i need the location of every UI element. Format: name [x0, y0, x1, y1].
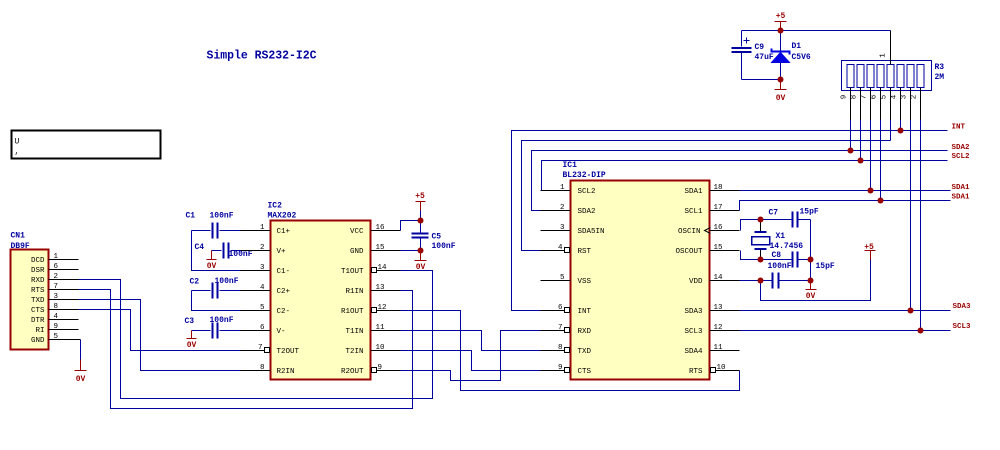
svg-text:5: 5 — [54, 333, 59, 341]
IC2 inverted-pin bubble pin14 T1OUT — [372, 268, 377, 273]
svg-text:1: 1 — [880, 53, 888, 58]
CN1 pin 3 stub — [49, 299, 79, 301]
svg-text:100nF: 100nF — [229, 250, 253, 259]
IC1 OSCIN clock chevron — [705, 228, 711, 234]
svg-text:0V: 0V — [76, 375, 86, 384]
svg-text:TXD: TXD — [578, 348, 592, 356]
svg-text:8: 8 — [260, 364, 265, 372]
wire C9/D1 bottom rail — [742, 79, 781, 81]
svg-text:INT: INT — [952, 124, 966, 132]
IC1 inverted-pin bubble pin7 RXD — [565, 328, 570, 333]
svg-text:0V: 0V — [776, 94, 786, 103]
svg-text:R3: R3 — [935, 63, 945, 72]
capacitor C7 15pF — [769, 208, 819, 228]
svg-text:47uF: 47uF — [755, 53, 774, 62]
node junction +5 / D1 top — [778, 28, 784, 34]
wire net SDA1 : IC1.18 to label — [740, 190, 951, 192]
svg-text:6: 6 — [54, 263, 59, 271]
node junction R3.6 / SDA1 line2 — [878, 198, 884, 204]
svg-text:3: 3 — [260, 264, 265, 272]
svg-text:0V: 0V — [416, 263, 426, 272]
wire CN1 GND down — [80, 340, 82, 360]
svg-text:BL232-DIP: BL232-DIP — [563, 171, 606, 180]
wire +5 rail to C9 and R3 pin1 — [742, 30, 891, 32]
svg-text:V+: V+ — [277, 248, 287, 256]
svg-text:1: 1 — [54, 253, 59, 261]
svg-text:R1IN: R1IN — [345, 288, 363, 296]
svg-text:10: 10 — [717, 364, 727, 372]
svg-text:4: 4 — [260, 284, 265, 292]
svg-text:18: 18 — [714, 184, 723, 192]
ground 0V at oscillator rail — [806, 281, 817, 302]
IC2 inverted-pin bubble pin9 R2OUT — [372, 368, 377, 373]
power +5 at IC2 — [415, 192, 425, 221]
node junction X1 top / OSCIN — [758, 217, 764, 223]
svg-text:,: , — [15, 148, 20, 157]
svg-text:5: 5 — [260, 304, 265, 312]
svg-text:C1+: C1+ — [277, 228, 291, 236]
svg-text:14: 14 — [378, 264, 388, 272]
svg-text:RXD: RXD — [578, 328, 592, 336]
CN1 pin 7 stub — [49, 289, 79, 291]
svg-text:5: 5 — [560, 274, 565, 282]
wire net T1IN : IC2.11 to IC1 TXD(8) — [401, 331, 541, 351]
wire net TXD : CN1.3 to IC2 R2IN(8) — [79, 300, 241, 371]
svg-text:C5V6: C5V6 — [792, 53, 811, 62]
svg-text:C4: C4 — [195, 243, 205, 252]
wire OSCOUT jog : IC1.15 down to crystal line — [741, 251, 792, 260]
node junction R3.4 / INT — [898, 128, 904, 134]
svg-text:MAX202: MAX202 — [268, 212, 297, 221]
svg-text:OSCOUT: OSCOUT — [675, 248, 703, 256]
node junction R3.3 / SDA3 — [908, 308, 914, 314]
power +5 at IC1 — [864, 243, 875, 260]
svg-text:C1-: C1- — [277, 268, 291, 276]
svg-text:6: 6 — [558, 304, 563, 312]
svg-text:+5: +5 — [415, 192, 425, 201]
svg-text:RI: RI — [35, 327, 44, 335]
resistor R3 2M (8x array) — [842, 61, 945, 91]
svg-text:15: 15 — [714, 244, 724, 252]
svg-text:Simple RS232-I2C: Simple RS232-I2C — [207, 50, 317, 63]
svg-text:15: 15 — [376, 244, 386, 252]
IC1 inverted-pin bubble pin4 RST — [565, 248, 570, 253]
capacitor C3 100nF — [185, 316, 241, 339]
svg-text:17: 17 — [714, 204, 723, 212]
svg-text:VCC: VCC — [350, 228, 364, 236]
wire net CTS : CN1.8 to IC2 T2OUT(7) — [79, 310, 241, 351]
wire net SDA3 : IC1.13 to label — [740, 310, 951, 312]
svg-text:C2+: C2+ — [277, 288, 291, 296]
svg-text:C7: C7 — [769, 209, 779, 218]
wire net RTS : CN1.7 to IC2 R1IN(13) — [79, 290, 413, 409]
capacitor C4 100nF — [195, 243, 253, 260]
IC2 left stubs pins 1-8 — [241, 231, 271, 371]
wire R3.6 to SDA1 line 2 — [880, 120, 882, 201]
svg-text:RXD: RXD — [31, 277, 45, 285]
svg-text:1: 1 — [560, 184, 565, 192]
IC1 inverted-pin bubble pin9 CTS — [565, 368, 570, 373]
wire net R2OUT : IC2.9 to IC1 RXD(7) — [401, 331, 541, 381]
capacitor (VDD decoupling 100nF) — [773, 273, 811, 289]
IC2 inverted-pin bubble pin7 T2OUT — [265, 348, 270, 353]
R3 pin number labels 9..2 (rotated) — [841, 94, 919, 99]
svg-text:SDA1: SDA1 — [952, 193, 971, 201]
svg-text:T2OUT: T2OUT — [277, 348, 300, 356]
wire net SDA2 : IC1.2 left-up to SDA2 label line — [532, 151, 948, 211]
node junction X1 bottom / OSCOUT — [758, 257, 764, 263]
svg-text:GND: GND — [31, 337, 45, 345]
op-amp: IC2 MAX202 body — [268, 202, 371, 380]
svg-text:U: U — [15, 138, 20, 147]
IC2 inverted-pin bubble pin12 R1OUT — [372, 308, 377, 313]
svg-text:INT: INT — [578, 308, 592, 316]
capacitor C9 47uF electrolytic — [732, 31, 774, 80]
svg-text:CN1: CN1 — [11, 232, 26, 241]
svg-text:RTS: RTS — [689, 368, 703, 376]
svg-text:9: 9 — [54, 323, 59, 331]
svg-text:C1: C1 — [186, 212, 196, 221]
note box U — [12, 131, 161, 159]
svg-text:0V: 0V — [207, 262, 217, 271]
svg-text:R2IN: R2IN — [277, 368, 295, 376]
svg-text:5: 5 — [881, 94, 889, 99]
wire net RST : IC1.4 left-up to R3.5 — [522, 141, 891, 251]
wire IC2 GND to C5/ground — [401, 250, 421, 252]
svg-text:DCD: DCD — [31, 257, 45, 265]
svg-text:R1OUT: R1OUT — [341, 308, 364, 316]
svg-text:10: 10 — [376, 344, 386, 352]
IC1 inverted-pin bubble pin8 TXD — [565, 348, 570, 353]
capacitor C5 100nF — [412, 221, 456, 252]
svg-text:15pF: 15pF — [816, 262, 835, 271]
svg-text:4: 4 — [54, 313, 59, 321]
svg-text:C2: C2 — [190, 278, 200, 287]
CN1 pin 8 stub — [49, 309, 79, 311]
svg-text:CTS: CTS — [31, 307, 45, 315]
svg-text:C5: C5 — [432, 233, 442, 242]
node junction decoupling cap / ground — [808, 278, 814, 284]
svg-text:C9: C9 — [755, 43, 765, 52]
capacitor C1 100nF — [186, 212, 241, 271]
svg-text:SCL2: SCL2 — [578, 188, 596, 196]
svg-text:C2-: C2- — [277, 308, 291, 316]
svg-text:SCL2: SCL2 — [952, 153, 971, 161]
svg-text:V-: V- — [277, 328, 286, 336]
svg-text:13: 13 — [714, 304, 724, 312]
svg-text:OSCIN: OSCIN — [678, 228, 701, 236]
svg-text:2: 2 — [260, 244, 265, 252]
IC1 inverted-pin bubble pin6 INT — [565, 308, 570, 313]
svg-text:2: 2 — [911, 95, 919, 100]
wire net INT : IC1.6 left-up to INT label line — [512, 131, 948, 311]
wire ground rail right of oscillator — [810, 220, 812, 281]
wire net SCL2 : IC1.1 up to SCL2 label line — [542, 161, 948, 191]
node junction R3.2 / SCL3 — [918, 328, 924, 334]
svg-text:7: 7 — [558, 324, 563, 332]
svg-text:DTR: DTR — [31, 317, 45, 325]
svg-text:C8: C8 — [772, 251, 782, 260]
IC1 left stubs pins 1-9 — [541, 191, 571, 371]
node junction C8 right / ground rail — [808, 257, 814, 263]
ground 0V at C3 — [187, 331, 197, 351]
svg-text:14.7456: 14.7456 — [770, 242, 804, 251]
node junction at C5 bottom — [418, 248, 424, 254]
CN1 pin 1 stub — [49, 259, 79, 261]
wire net RXD : CN1.2 to IC2 T1OUT(14) — [79, 271, 433, 399]
CN1 pin numbers — [54, 253, 59, 341]
wire R3.9 to SDA2 line — [850, 120, 852, 151]
svg-text:7: 7 — [861, 95, 869, 100]
svg-text:8: 8 — [851, 95, 859, 100]
svg-text:CTS: CTS — [578, 368, 592, 376]
wire R3.7 to SDA1 line 1 — [870, 120, 872, 191]
svg-text:9: 9 — [558, 364, 563, 372]
svg-text:16: 16 — [376, 224, 386, 232]
IC1 pin numbers — [558, 184, 726, 372]
node junction R3.7 / SDA1 — [868, 188, 874, 194]
node junction R3.8 / SCL2 — [858, 158, 864, 164]
svg-text:VSS: VSS — [578, 278, 592, 286]
wire +5 feed to VDD — [761, 260, 871, 301]
svg-text:SDA3: SDA3 — [953, 303, 972, 311]
capacitor C2 100nF — [190, 277, 241, 311]
ground 0V at C4 — [207, 251, 217, 272]
wire net R1OUT : IC2.12 to IC1 RTS(10) — [401, 311, 740, 391]
ground 0V at C5 — [415, 251, 427, 273]
svg-text:D1: D1 — [792, 42, 802, 51]
svg-text:SCL3: SCL3 — [684, 328, 703, 336]
svg-text:100nF: 100nF — [432, 242, 456, 251]
wire net SCL3 : IC1.12 to label — [740, 330, 951, 332]
node junction R3.9 / SDA2 — [848, 148, 854, 154]
svg-text:SDA2: SDA2 — [578, 208, 596, 216]
wire VDD : IC1.14 to decoupling cap — [740, 280, 773, 282]
svg-text:8: 8 — [558, 344, 563, 352]
svg-text:0V: 0V — [187, 341, 197, 350]
svg-text:R2OUT: R2OUT — [341, 368, 364, 376]
wire R3.3 to SDA3 line — [910, 120, 912, 311]
svg-text:TXD: TXD — [31, 297, 45, 305]
svg-text:SDA1: SDA1 — [952, 184, 971, 192]
svg-text:SDA4: SDA4 — [684, 348, 703, 356]
svg-text:SCL3: SCL3 — [953, 323, 972, 331]
svg-text:4: 4 — [558, 244, 563, 252]
svg-text:T1IN: T1IN — [345, 328, 363, 336]
svg-text:9: 9 — [841, 95, 849, 100]
svg-text:2: 2 — [560, 204, 565, 212]
svg-text:C3: C3 — [185, 317, 195, 326]
svg-text:3: 3 — [560, 224, 565, 232]
svg-text:RTS: RTS — [31, 287, 45, 295]
svg-text:1: 1 — [260, 224, 265, 232]
svg-text:DSR: DSR — [31, 267, 45, 275]
svg-text:11: 11 — [376, 324, 386, 332]
CN1 pin 2 stub — [49, 279, 79, 281]
wire OSCIN jog : IC1.16 up to crystal line — [741, 220, 792, 231]
IC1 inverted-pin bubble pin10 RTS — [711, 368, 716, 373]
svg-text:8: 8 — [54, 303, 59, 311]
svg-text:SDA5IN: SDA5IN — [578, 228, 605, 236]
IC2 pin numbers — [258, 224, 387, 372]
ground 0V below D1 — [775, 80, 787, 104]
IC1 right stubs pins 10-18 — [710, 191, 740, 371]
CN1 pin 4 stub — [49, 319, 79, 321]
ground 0V at CN1 — [75, 360, 87, 385]
R3 bottom stubs pins 9..2 — [851, 88, 921, 120]
wire R3.5 to RST line — [890, 120, 892, 141]
capacitor C8 15pF — [768, 251, 835, 271]
svg-text:3: 3 — [54, 293, 59, 301]
svg-text:14: 14 — [714, 274, 724, 282]
svg-text:12: 12 — [714, 324, 723, 332]
svg-text:IC1: IC1 — [563, 161, 578, 170]
svg-text:SDA3: SDA3 — [684, 308, 703, 316]
svg-text:2: 2 — [54, 273, 59, 281]
crystal X1 14.7456 — [752, 220, 804, 260]
svg-text:T2IN: T2IN — [345, 348, 363, 356]
svg-text:11: 11 — [714, 344, 724, 352]
svg-text:7: 7 — [54, 283, 59, 291]
node junction D1 bottom / ground — [778, 77, 784, 83]
connector CN1 DB9F — [11, 232, 49, 350]
svg-text:SCL1: SCL1 — [684, 208, 703, 216]
svg-text:100nF: 100nF — [768, 262, 792, 271]
wire IC2 VCC to +5/C5 — [401, 221, 421, 231]
node junction VDD / +5 feed — [758, 278, 764, 284]
svg-text:+5: +5 — [776, 12, 786, 21]
svg-text:15pF: 15pF — [800, 208, 819, 217]
IC1 BL232-DIP body — [563, 161, 710, 380]
wire R3.4 to INT line — [900, 120, 902, 131]
IC2 right stubs pins 9-16 — [371, 231, 401, 371]
svg-text:X1: X1 — [776, 232, 786, 241]
wire net T2IN : IC2.10 to IC1 CTS(9) — [401, 351, 541, 371]
wire R3.2 to SCL3 line — [920, 120, 922, 331]
CN1 pin 5 stub — [49, 339, 81, 341]
svg-text:RST: RST — [578, 248, 592, 256]
node junction at C5 top — [418, 218, 424, 224]
svg-text:7: 7 — [258, 344, 263, 352]
svg-text:6: 6 — [871, 94, 879, 99]
svg-text:3: 3 — [901, 94, 909, 99]
wire net SCL1 : IC1.17 up to second SDA1 label line — [740, 201, 951, 211]
svg-text:2M: 2M — [935, 73, 945, 82]
power +5 top rail — [775, 12, 787, 31]
svg-text:6: 6 — [260, 324, 265, 332]
svg-text:IC2: IC2 — [268, 202, 283, 211]
svg-text:16: 16 — [714, 224, 724, 232]
R3 pin 1 lead (top) — [890, 31, 892, 65]
svg-text:GND: GND — [350, 248, 364, 256]
svg-text:4: 4 — [891, 94, 899, 99]
diode D1 C5V6 zener — [772, 31, 811, 80]
CN1 pin 6 stub — [49, 269, 79, 271]
svg-text:SDA1: SDA1 — [684, 188, 703, 196]
svg-text:13: 13 — [376, 284, 386, 292]
CN1 pin 9 stub — [49, 329, 79, 331]
svg-text:12: 12 — [378, 304, 387, 312]
svg-text:T1OUT: T1OUT — [341, 268, 364, 276]
wire R3.8 to SCL2 line — [860, 120, 862, 161]
svg-text:100nF: 100nF — [210, 212, 234, 221]
svg-text:9: 9 — [378, 364, 383, 372]
svg-text:0V: 0V — [806, 292, 816, 301]
svg-text:VDD: VDD — [689, 278, 703, 286]
svg-text:SDA2: SDA2 — [952, 144, 971, 152]
